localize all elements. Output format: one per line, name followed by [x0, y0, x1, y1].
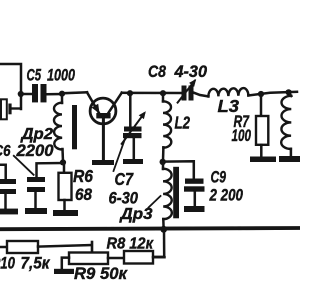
crystal ZQ1 right plate: [8, 104, 11, 115]
capacitor C5 plates: [32, 84, 38, 102]
label C5 1000: [27, 67, 76, 85]
resistor R8: [124, 251, 153, 264]
label C9 2200: [209, 168, 244, 205]
wire C8 to L3: [194, 93, 209, 97]
wire input top-left: [0, 64, 21, 109]
capacitor left (clipped) plates: [0, 179, 16, 184]
capacitor C6 plates: [27, 177, 45, 182]
pointer line C7 label: [114, 139, 126, 171]
ground C9: [184, 206, 205, 212]
wire C9 to ground: [194, 192, 197, 207]
wire node C to R6: [63, 163, 66, 174]
wire crystal to node: [12, 107, 21, 109]
ground left cap: [0, 209, 18, 215]
label R7 100: [232, 112, 252, 145]
wire node D to C7: [129, 93, 132, 127]
wire R6 to ground: [63, 200, 66, 211]
transistor V1 emitter line: [87, 92, 99, 113]
transistor V1 base lead: [102, 118, 105, 160]
wire left cap to edge: [0, 165, 6, 180]
resistor R7: [256, 116, 268, 145]
choke Dr2 core bar: [72, 105, 77, 149]
svg-text:2 200: 2 200: [209, 187, 244, 205]
wire L4 to ground: [290, 149, 293, 157]
label L2: [175, 113, 191, 133]
label R9 50k: [74, 265, 129, 283]
resistor R10: [7, 241, 38, 253]
svg-text:100: 100: [232, 127, 252, 145]
resistor R9: [69, 253, 108, 265]
label R8 12k: [107, 236, 155, 253]
label R6 68: [73, 166, 93, 204]
svg-text:C7: C7: [115, 169, 135, 189]
choke Dr3 coil: [163, 169, 172, 219]
label C8 4-30: [148, 63, 208, 81]
ground R7: [250, 157, 276, 163]
svg-text:R9 50к: R9 50к: [74, 265, 129, 283]
svg-text:Р10: Р10: [0, 254, 16, 272]
wire node to C5: [22, 93, 32, 96]
wire node F to C9: [164, 161, 194, 179]
label 2200: [15, 142, 54, 160]
ground base: [92, 160, 114, 165]
svg-text:L2: L2: [175, 113, 191, 133]
wire node B to emitter bend: [62, 92, 87, 93]
svg-text:Др2: Др2: [19, 126, 53, 143]
node H (R7 branch): [258, 91, 264, 97]
node G (bus junction): [160, 226, 167, 233]
capacitor C8 trimmer arrow: [178, 81, 195, 103]
svg-text:С9: С9: [211, 168, 227, 187]
wire collector to C8: [122, 92, 182, 95]
wire Dr3 to bus: [162, 219, 165, 228]
wire R7 to ground: [260, 145, 263, 157]
transistor V1 emitter arrow: [92, 104, 100, 114]
node B (emitter/Dr2): [59, 91, 65, 97]
label Dr2: [19, 126, 53, 143]
svg-text:C5: C5: [27, 67, 42, 85]
transistor V1 circle: [90, 98, 116, 124]
wire R10 to stub: [38, 245, 92, 247]
wire R9 left to ground: [62, 258, 69, 269]
ground R6: [53, 210, 78, 216]
svg-text:4-30: 4-30: [174, 63, 208, 81]
capacitor C7 trimmer arrow: [122, 114, 144, 144]
svg-text:C8: C8: [148, 63, 167, 81]
transistor V1 collector line: [108, 93, 122, 114]
inductor L4 coil: [281, 96, 291, 149]
wire node E to L2: [162, 93, 165, 102]
pointer line 2200 to C6: [14, 156, 34, 175]
node E (L2 branch): [160, 90, 166, 96]
svg-text:1000: 1000: [47, 67, 76, 85]
wire R8 right lead: [153, 256, 165, 259]
svg-text:7,5к: 7,5к: [21, 254, 52, 272]
svg-text:68: 68: [75, 185, 92, 204]
wire left cap to ground: [4, 194, 7, 209]
choke Dr2 coil: [54, 103, 62, 150]
wire C7 to ground: [133, 138, 136, 160]
label C6 (clipped at edge): [0, 143, 11, 160]
resistor R6: [59, 173, 72, 200]
node I (L4 branch): [286, 89, 292, 95]
svg-text:R8 12к: R8 12к: [107, 236, 155, 253]
capacitor C9 plates: [185, 179, 204, 184]
pointer line Dr3 label: [149, 196, 161, 208]
svg-text:Др3: Др3: [118, 206, 152, 223]
label C7 6-30: [109, 169, 139, 208]
wire node C to C6: [37, 163, 64, 178]
transistor V1 base bar: [96, 113, 110, 118]
choke Dr2 top lead: [61, 94, 64, 103]
crystal ZQ1 body: [1, 99, 7, 119]
wire C6 to ground: [34, 192, 37, 209]
svg-text:2200: 2200: [15, 142, 54, 160]
label Dr3: [118, 206, 152, 223]
bus wire (bottom horizontal): [0, 226, 300, 231]
wire R9 to R8: [108, 257, 124, 260]
wire input R10: [0, 246, 7, 249]
ground C7: [123, 159, 143, 164]
wire L2 to node F: [162, 147, 165, 160]
wire C5 to node B: [47, 93, 63, 96]
choke Dr3 top lead: [162, 162, 165, 169]
node C (Dr2/R6/C6): [60, 159, 66, 165]
choke Dr3 core bar: [173, 167, 179, 219]
choke Dr2 bottom lead: [61, 149, 64, 162]
wire bus down to R8: [153, 230, 164, 257]
ground R9: [54, 269, 74, 274]
capacitor C8 plates: [182, 86, 187, 101]
wire stub to R9: [91, 242, 94, 253]
inductor L3 coil: [208, 88, 248, 96]
wire L3 to right: [248, 92, 297, 96]
label R10 7,5k: [0, 254, 51, 272]
wire node H to R7: [260, 94, 263, 117]
node F (L2/Dr3/C9): [160, 159, 166, 165]
ground C6: [25, 208, 47, 214]
node D (C7 branch): [127, 90, 133, 96]
node A (crystal/C5 junction): [18, 91, 24, 97]
ground L4: [279, 156, 300, 162]
svg-text:С6: С6: [0, 143, 11, 160]
wire node I to L4: [289, 93, 292, 97]
label L3: [218, 96, 240, 116]
svg-text:R6: R6: [73, 166, 93, 186]
inductor L2 coil: [163, 101, 171, 147]
capacitor C7 plates: [124, 127, 142, 132]
